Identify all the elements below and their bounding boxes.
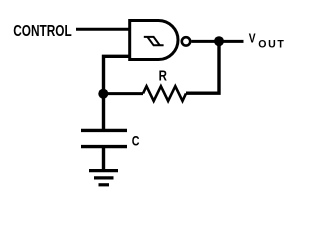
inverter bubble on U1 output [182, 37, 190, 45]
resistor R [143, 86, 186, 101]
Schmitt hysteresis symbol inside U1 [144, 37, 160, 45]
node junction feedback/RC [98, 89, 108, 99]
wire from bubble to VOUT [192, 40, 244, 43]
svg-text:V: V [249, 33, 256, 46]
wire node down to capacitor [102, 94, 105, 130]
wire capacitor to ground [102, 147, 105, 170]
svg-text:CONTROL: CONTROL [13, 21, 72, 39]
wire from CONTROL to gate input A [76, 28, 131, 31]
wire feedback to gate input B [104, 56, 132, 92]
NAND gate U1 (Schmitt trigger) [130, 21, 178, 60]
svg-text:OUT: OUT [258, 38, 285, 50]
capacitor C plate bottom [81, 145, 127, 148]
capacitor C plate top [81, 129, 127, 132]
ground symbol [89, 169, 118, 172]
node junction at output [214, 36, 224, 46]
svg-text:C: C [132, 133, 140, 149]
wire from output node down to feedback run [186, 43, 219, 93]
wire resistor left to node [101, 92, 143, 95]
svg-text:R: R [159, 67, 168, 84]
